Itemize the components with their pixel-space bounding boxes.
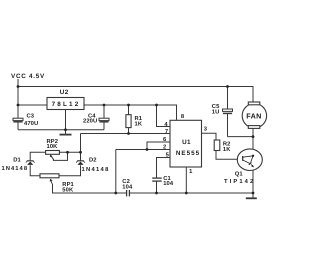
wire RP2 right lead to D2 vertical [59,151,80,153]
wire pin2/6 drop x=115.8 [115,150,117,194]
wire VCC vertical left (x=18) [17,79,19,130]
op-amp U1 NE555 timer box [170,120,202,167]
svg-text:U1: U1 [182,139,191,146]
motor FAN top terminal [248,102,259,105]
svg-text:U2: U2 [60,89,69,96]
wire pin3 line to R2 top [202,133,217,140]
transistor Q1 internals (darlington) [243,156,254,168]
svg-text:NE555: NE555 [176,150,200,157]
resistor R2 body [214,140,220,151]
capacitor C4 plates [99,118,109,122]
svg-text:10K: 10K [47,143,59,150]
resistor RP2 wiper arrow [50,154,54,159]
wire C4 vertical x=104 [103,105,105,130]
capacitor C1 plates [152,178,162,181]
resistor RP2 body [46,151,60,155]
wire RP2 wiper loop [53,152,67,160]
wire top rail down to FAN x=253 [252,87,254,103]
svg-text:104: 104 [122,183,133,190]
resistor RP1 body [40,174,59,178]
transistor Q1 circle [237,149,262,171]
svg-text:Q1: Q1 [235,171,244,178]
resistor RP1 wiper arrow [50,179,53,185]
svg-text:FAN: FAN [246,111,262,120]
wire pin4 drop and stub [157,105,171,127]
svg-text:1K: 1K [223,147,231,153]
svg-text:220U: 220U [83,118,97,125]
wire U2 ground pin down [65,110,67,135]
wire C5 vertical x=227.5 [227,87,229,137]
junction node dots [17,85,255,194]
wire ground-mid line y=129.8 [18,129,104,131]
wire R2 bottom to Q1 base [216,151,238,160]
svg-text:C3: C3 [27,113,35,120]
svg-text:TIP142: TIP142 [224,178,255,185]
capacitor C2 plates [127,190,130,196]
wire Q1 emitter to ground rail [252,168,254,198]
capacitor C5 plates [223,109,233,113]
svg-text:7: 7 [165,129,168,135]
wire C1 bottom lead [156,181,158,193]
wire pin5 stub to C1 [157,158,171,179]
svg-text:1U: 1U [212,110,220,116]
svg-text:1N4148: 1N4148 [82,166,110,173]
wire D2 bottom to RP1 right lead [59,165,81,176]
svg-text:470U: 470U [24,120,38,127]
diode D2 [76,161,85,165]
op-amp U2 78L12 regulator box [47,98,84,110]
wire pin6 stub with corner to pin2 [147,142,170,150]
svg-text:D2: D2 [89,156,97,163]
wire U2 line y=105 from VCC to U2 and U2 to pin8 corner [18,105,177,120]
svg-text:78L12: 78L12 [52,101,81,108]
wire ground rail y=193 from C2 to Q1 [129,192,253,194]
motor FAN bottom terminal [248,126,259,129]
wire pin2 line y=149.5 [116,149,170,151]
wire R1 leads x=128.5 [128,105,130,134]
wire Q1 collector vertical [252,137,254,156]
wire RP2 left lead with D1 corner [30,152,45,160]
diode D1 [26,161,35,165]
wire pin1 drop x=186.3 [185,167,187,193]
ground symbol Q1 [246,197,257,199]
wire D1 bottom to RP1 left lead [30,165,40,176]
wire pin7 line y=133.5 [81,133,171,135]
wire pin7 to RP2/D2 vertical x=80.5 [80,134,82,161]
svg-text:VCC 4.5V: VCC 4.5V [11,73,45,80]
ground symbol U2 [60,134,72,136]
svg-text:2: 2 [163,144,166,151]
svg-text:1N4148: 1N4148 [2,165,29,172]
wire C5 to FAN bottom line y=136.6 [228,136,254,138]
capacitor C3 plates [13,118,23,122]
svg-text:D1: D1 [13,158,21,164]
wire top VCC rail y=86.5 [18,86,254,88]
wire RP1 wiper down and bottom line to C2 [53,184,127,193]
motor FAN circle [242,104,266,128]
svg-text:104: 104 [163,180,174,187]
resistor R1 body [126,115,131,128]
wire FAN bottom to collector junction [252,129,254,137]
svg-text:1K: 1K [135,122,143,128]
svg-text:50K: 50K [62,186,74,193]
